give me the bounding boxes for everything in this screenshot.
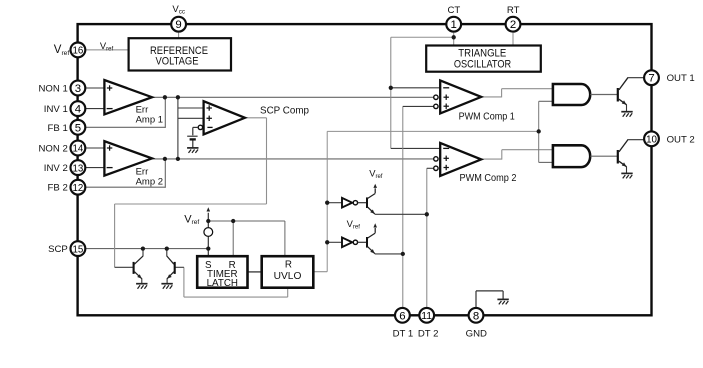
svg-text:6: 6: [399, 310, 405, 322]
svg-text:16: 16: [73, 46, 84, 57]
svg-text:DT 1: DT 1: [393, 329, 414, 340]
svg-text:3: 3: [75, 83, 81, 95]
svg-text:NON 1: NON 1: [38, 84, 67, 95]
svg-text:OUT 1: OUT 1: [667, 73, 695, 84]
svg-text:13: 13: [73, 163, 84, 174]
svg-text:1: 1: [451, 19, 457, 31]
svg-text:9: 9: [175, 19, 181, 31]
svg-text:10: 10: [646, 135, 657, 146]
svg-text:15: 15: [73, 244, 84, 255]
svg-text:OUT 2: OUT 2: [667, 134, 695, 145]
svg-text:LATCH: LATCH: [207, 278, 238, 289]
svg-text:FB 1: FB 1: [48, 123, 68, 134]
svg-text:CT: CT: [448, 5, 461, 16]
svg-text:INV 1: INV 1: [44, 104, 68, 115]
svg-text:4: 4: [75, 104, 81, 116]
svg-text:Amp 2: Amp 2: [136, 176, 163, 187]
svg-text:PWM Comp 1: PWM Comp 1: [459, 111, 515, 123]
svg-text:OSCILLATOR: OSCILLATOR: [454, 59, 511, 71]
svg-text:R: R: [285, 260, 292, 271]
svg-text:12: 12: [73, 183, 84, 194]
svg-text:11: 11: [421, 311, 432, 322]
svg-text:NON 2: NON 2: [38, 144, 67, 155]
svg-text:DT 2: DT 2: [418, 329, 439, 340]
svg-text:INV 2: INV 2: [44, 163, 68, 174]
svg-text:GND: GND: [466, 329, 487, 340]
svg-text:8: 8: [473, 310, 479, 322]
svg-text:SCP: SCP: [48, 244, 68, 255]
svg-text:RT: RT: [507, 5, 520, 16]
svg-text:PWM Comp 2: PWM Comp 2: [460, 172, 517, 184]
svg-text:SCP Comp: SCP Comp: [260, 104, 309, 116]
svg-text:14: 14: [73, 144, 84, 155]
svg-text:VOLTAGE: VOLTAGE: [156, 56, 199, 68]
svg-text:5: 5: [75, 122, 81, 134]
svg-text:Amp 1: Amp 1: [136, 114, 163, 125]
svg-text:UVLO: UVLO: [274, 271, 302, 282]
svg-text:FB 2: FB 2: [48, 183, 68, 194]
svg-text:7: 7: [648, 73, 654, 85]
svg-text:2: 2: [510, 19, 516, 31]
